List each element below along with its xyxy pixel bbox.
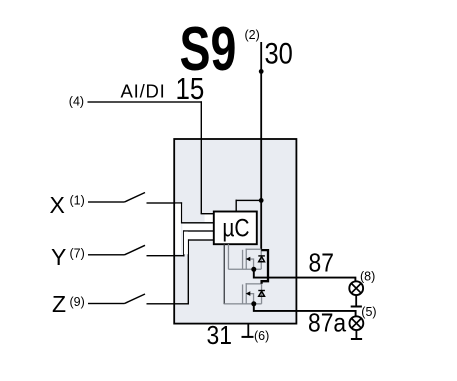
- white gap between pin rails 15 and X: [205, 215, 214, 222]
- white channel between X and Y routing: [175, 204, 181, 254]
- svg-text:(9): (9): [70, 295, 85, 309]
- terminal label (5): [361, 305, 376, 319]
- svg-text:(7): (7): [70, 247, 85, 261]
- MOSFET Q1: [228, 249, 261, 270]
- body diode D1: [258, 249, 265, 269]
- ground terminal 31 stem: [242, 324, 254, 338]
- wire 30 branch to uC: [236, 200, 262, 213]
- terminal label 30: [265, 37, 293, 70]
- terminal label (6): [254, 329, 269, 343]
- svg-text:(2): (2): [245, 28, 260, 42]
- label Z: [52, 291, 66, 317]
- gate feed wire uC to Q1: [228, 244, 229, 269]
- body diode D2: [258, 284, 265, 304]
- module box S9 body: [174, 139, 296, 324]
- wire 87 from Q1 source to lamp: [254, 269, 356, 281]
- terminal label (2): [245, 28, 260, 42]
- svg-text:15: 15: [176, 71, 205, 105]
- terminal label (9): [70, 295, 85, 309]
- svg-text:(1): (1): [70, 194, 85, 208]
- junction dot Q2 source: [251, 301, 256, 306]
- svg-text:(4): (4): [69, 95, 84, 109]
- switch Y: [88, 245, 145, 255]
- wire Y to uC: [147, 230, 215, 256]
- microcontroller U1 label µC: [222, 214, 249, 242]
- wire terminal 30 vertical: [260, 42, 262, 250]
- terminal label 87a: [308, 309, 347, 338]
- white gap between pin rails X and Y: [182, 224, 214, 230]
- wire 87a from Q2 source to lamp: [254, 304, 356, 316]
- terminal label (4): [69, 95, 84, 109]
- gate feed wire uC to Q2: [224, 244, 225, 304]
- svg-text:30: 30: [265, 37, 293, 70]
- svg-text:(5): (5): [361, 305, 376, 319]
- switch X: [88, 193, 145, 203]
- svg-text:(8): (8): [360, 269, 375, 283]
- microcontroller U1 box: [214, 212, 257, 245]
- white channel between Y and Z risers: [184, 232, 188, 255]
- label S9: [180, 13, 237, 83]
- wire Z to uC: [147, 239, 215, 304]
- wire terminal 15: [88, 101, 215, 214]
- svg-text:Y: Y: [51, 244, 66, 270]
- terminal label 15: [176, 71, 205, 105]
- MOSFET Q2: [224, 283, 261, 304]
- svg-text:(6): (6): [254, 329, 269, 343]
- white gap between pin rails Y and Z: [185, 232, 214, 239]
- junction dot Q1 source: [251, 267, 256, 272]
- svg-text:AI/DI: AI/DI: [121, 81, 166, 102]
- wire X to uC: [147, 202, 215, 223]
- label AI/DI: [121, 81, 166, 102]
- terminal label (8): [360, 269, 375, 283]
- junction dot node 30 to uC: [259, 198, 264, 203]
- terminal label (7): [70, 247, 85, 261]
- thick power wire 30 to Q1/Q2 drains: [261, 250, 268, 284]
- junction dot on 30 wire (upper): [259, 69, 264, 74]
- label Y: [51, 244, 66, 270]
- lamp (8): [349, 281, 363, 295]
- svg-text:Z: Z: [52, 291, 66, 317]
- svg-text:87a: 87a: [308, 309, 347, 338]
- lamp (5): [350, 316, 364, 330]
- svg-text:31: 31: [207, 322, 232, 351]
- ground for lamp (8): [351, 295, 362, 307]
- switch Z: [88, 294, 145, 304]
- svg-text:µC: µC: [222, 214, 249, 242]
- label X: [50, 192, 65, 218]
- ground for lamp (5): [351, 330, 362, 340]
- terminal label (1): [70, 194, 85, 208]
- terminal label 87: [309, 249, 334, 278]
- svg-text:X: X: [50, 192, 65, 218]
- svg-text:87: 87: [309, 249, 334, 278]
- terminal label 31: [207, 322, 232, 351]
